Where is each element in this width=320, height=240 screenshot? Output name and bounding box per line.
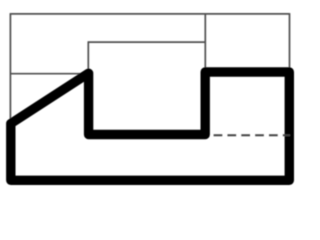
wire: thin left middle horizontal line (10, 73, 86, 75)
wire: thin outer right vertical line (289, 13, 291, 72)
wire: thin middle divider vertical line (204, 14, 206, 72)
wire: thin outer top horizontal line (10, 13, 289, 15)
wire: thin inner rectangle top horizontal line (88, 41, 205, 43)
wire: thin outer left vertical line (9, 13, 11, 120)
hidden line (dashed) (214, 134, 290, 136)
wire: thin inner rectangle left vertical line (87, 41, 89, 73)
thick profile outline of part (11, 72, 290, 180)
